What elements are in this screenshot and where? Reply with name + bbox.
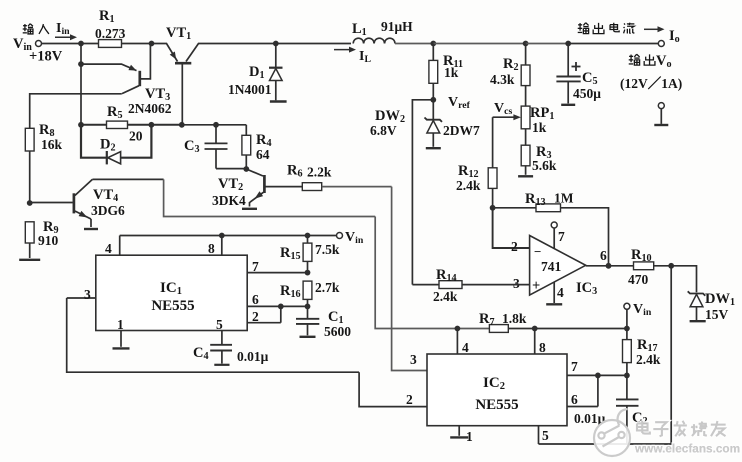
label Vref bbox=[448, 95, 471, 111]
pin 3 of IC2 bbox=[410, 352, 417, 367]
resistor R1 bbox=[95, 8, 126, 47]
wire (VT4 collector) bbox=[92, 178, 163, 180]
node N (summing) bbox=[490, 205, 496, 211]
resistor R7 bbox=[479, 311, 527, 332]
wire bbox=[206, 43, 276, 45]
node S (R15/R16) bbox=[305, 270, 311, 276]
svg-text:4.3k: 4.3k bbox=[490, 72, 515, 87]
label Vcs bbox=[494, 101, 512, 117]
inductor L1 bbox=[334, 19, 413, 65]
wire (supply rail to R7) bbox=[375, 217, 489, 329]
pin 2 of IC2 bbox=[406, 392, 413, 407]
capacitor C2 bbox=[574, 375, 648, 444]
svg-text:0.01μ: 0.01μ bbox=[237, 349, 269, 364]
node E (R2 tap) bbox=[523, 41, 529, 47]
pin 7 of IC3 with terminal bbox=[551, 222, 565, 249]
wire (input rail down) bbox=[80, 44, 82, 125]
svg-text:2: 2 bbox=[406, 392, 413, 407]
svg-text:15V: 15V bbox=[705, 307, 729, 322]
node J (D2 right) bbox=[149, 122, 155, 128]
wire (Vcs down) bbox=[492, 117, 494, 168]
wire bbox=[122, 43, 152, 45]
svg-text:7: 7 bbox=[571, 359, 578, 374]
svg-text:7: 7 bbox=[252, 259, 259, 274]
svg-text:4: 4 bbox=[462, 340, 469, 355]
svg-text:91μH: 91μH bbox=[381, 19, 413, 34]
resistor R13 bbox=[525, 191, 574, 212]
pin 1 of IC1 with ground bbox=[113, 317, 130, 348]
node Z (R17 bottom) bbox=[624, 373, 630, 379]
node Q (pin8 tap) bbox=[219, 233, 225, 239]
watermark text elecfans bbox=[634, 421, 740, 456]
diode D1 1N4001 bbox=[228, 44, 287, 102]
node Vin terminal (IC1 rail) bbox=[337, 230, 364, 246]
resistor R6 bbox=[287, 163, 332, 191]
svg-text:2.4k: 2.4k bbox=[433, 289, 458, 304]
svg-text:5.6k: 5.6k bbox=[532, 158, 557, 173]
pin 8 of IC1 bbox=[208, 236, 222, 257]
transistor VT2 bbox=[212, 169, 302, 209]
svg-text:6: 6 bbox=[252, 292, 259, 307]
svg-text:64: 64 bbox=[256, 147, 270, 162]
node B (R1 right) bbox=[149, 41, 155, 47]
wire (rail to R4) bbox=[182, 124, 247, 126]
svg-text:3DK4: 3DK4 bbox=[212, 193, 246, 208]
node Vin input terminal bbox=[36, 41, 42, 47]
svg-text:www.elecfans.com: www.elecfans.com bbox=[634, 442, 740, 456]
svg-text:16k: 16k bbox=[41, 137, 63, 152]
svg-text:6.8V: 6.8V bbox=[370, 123, 397, 138]
node I (R5 rail left) bbox=[78, 122, 84, 128]
wire bbox=[626, 309, 628, 328]
pin 5 of IC1 bbox=[216, 317, 223, 344]
zener diode DW2 2DW7 bbox=[370, 100, 480, 148]
IC IC2 NE555 bbox=[427, 354, 567, 426]
watermark logo elecfans bbox=[594, 409, 630, 456]
wire (VT1 base) bbox=[181, 64, 183, 125]
svg-text:741: 741 bbox=[541, 259, 562, 274]
svg-text:5600: 5600 bbox=[324, 324, 351, 339]
pin 5 of IC2 bbox=[539, 426, 550, 444]
op-amp U1 741 IC3 bbox=[511, 236, 607, 298]
svg-text:450μ: 450μ bbox=[573, 86, 601, 101]
capacitor C3 bbox=[184, 125, 228, 169]
wire bbox=[322, 186, 392, 188]
wire (R14 to pin3) bbox=[462, 284, 530, 286]
node D (R11 tap) bbox=[430, 41, 436, 47]
wire (IC1 supply rail) bbox=[120, 235, 337, 237]
svg-text:+: + bbox=[532, 278, 540, 294]
diode D2 bbox=[81, 125, 151, 165]
svg-text:2.2k: 2.2k bbox=[307, 165, 332, 180]
label output current Io bbox=[578, 23, 680, 45]
wire bbox=[433, 43, 525, 45]
pin 7 of IC2 bbox=[567, 359, 627, 375]
wire (VT4 to IC2 supply rail) bbox=[164, 179, 376, 216]
svg-text:20: 20 bbox=[129, 129, 143, 144]
wire bbox=[81, 43, 99, 45]
pin 6 of IC1 bbox=[247, 292, 307, 307]
pin 2 of IC1 bbox=[247, 306, 281, 324]
wire bbox=[216, 168, 246, 170]
wire bbox=[654, 265, 672, 267]
node output terminal Io bbox=[658, 41, 664, 47]
wire bbox=[128, 124, 182, 126]
node A (input rail) bbox=[78, 41, 84, 47]
svg-text:1: 1 bbox=[117, 317, 124, 332]
svg-text:2.4k: 2.4k bbox=[636, 352, 661, 367]
wire (VT3 collector to R8) bbox=[30, 94, 122, 129]
wire bbox=[568, 43, 658, 45]
pin 4 of IC1 bbox=[105, 236, 120, 257]
svg-text:0.273: 0.273 bbox=[95, 26, 126, 41]
svg-text:2.7k: 2.7k bbox=[315, 280, 340, 295]
resistor R15 bbox=[280, 236, 340, 273]
svg-text:470: 470 bbox=[628, 272, 649, 287]
wire bbox=[42, 43, 82, 45]
svg-text:910: 910 bbox=[38, 233, 59, 248]
svg-text:1.8k: 1.8k bbox=[502, 311, 527, 326]
wire (IC1 pin3 run) bbox=[67, 298, 359, 372]
pin 4 of IC3 with ground bbox=[546, 282, 564, 304]
wire (to IC2 pin2) bbox=[359, 372, 427, 406]
wire bbox=[412, 284, 439, 286]
svg-text:6: 6 bbox=[600, 248, 607, 263]
node C (D1 tap) bbox=[273, 41, 279, 47]
pin 1 of IC2 with ground bbox=[450, 426, 473, 444]
svg-text:4: 4 bbox=[557, 285, 564, 300]
wire (feedback to bottom rail) bbox=[539, 266, 672, 444]
node R (R15 top) bbox=[305, 233, 311, 239]
svg-text:4: 4 bbox=[105, 241, 112, 256]
resistor R5 bbox=[107, 104, 143, 144]
wire bbox=[395, 43, 433, 45]
svg-text:7.5k: 7.5k bbox=[315, 242, 340, 257]
wire bbox=[526, 43, 569, 45]
node K (VT1 base) bbox=[179, 122, 185, 128]
resistor R4 bbox=[242, 125, 272, 169]
wire (to DW1) bbox=[671, 266, 696, 293]
node O (opamp output) bbox=[606, 263, 612, 269]
resistor R8 bbox=[25, 122, 62, 152]
svg-text:3: 3 bbox=[513, 276, 520, 291]
svg-text:3DG6: 3DG6 bbox=[91, 203, 125, 218]
node Vin terminal (right) bbox=[624, 302, 652, 318]
node P (R10 right) bbox=[668, 263, 674, 269]
transistor VT4 bbox=[30, 179, 125, 229]
wire (R6 to IC2 pin3) bbox=[392, 187, 427, 371]
svg-text:8: 8 bbox=[208, 241, 215, 256]
svg-text:2.4k: 2.4k bbox=[456, 178, 481, 193]
svg-text:1k: 1k bbox=[444, 65, 459, 80]
resistor R14 bbox=[433, 267, 462, 304]
IC IC1 NE555 bbox=[96, 255, 247, 330]
ground (below R9) bbox=[19, 243, 40, 260]
svg-text:−: − bbox=[534, 244, 541, 259]
node Y (pin6 tie) bbox=[595, 373, 601, 379]
zener diode DW1 15V bbox=[688, 291, 735, 322]
resistor R12 bbox=[456, 163, 497, 208]
resistor R2 bbox=[490, 44, 530, 88]
node T (R16 bottom) bbox=[305, 304, 311, 310]
wire (Vref to R14) bbox=[412, 100, 433, 285]
node X (Vin/R17) bbox=[624, 326, 630, 332]
svg-text:2: 2 bbox=[511, 239, 518, 254]
svg-text:NE555: NE555 bbox=[151, 298, 194, 314]
node V (pin4 tap) bbox=[455, 326, 461, 332]
transistor VT1 bbox=[152, 25, 207, 63]
wire bbox=[493, 207, 536, 209]
node G (VT3 emitter tap) bbox=[78, 61, 84, 67]
node M (VT2 collector) bbox=[243, 166, 249, 172]
label input Vin +18V bbox=[13, 21, 77, 65]
svg-text:1: 1 bbox=[466, 429, 473, 444]
svg-text:2N4062: 2N4062 bbox=[128, 101, 172, 116]
wire (node N to pin2) bbox=[493, 208, 530, 248]
wire bbox=[276, 43, 351, 45]
svg-text:1N4001: 1N4001 bbox=[228, 82, 272, 97]
svg-text:3: 3 bbox=[84, 287, 91, 302]
wire (opamp output) bbox=[586, 265, 609, 267]
resistor R17 bbox=[623, 329, 661, 376]
resistor R16 bbox=[280, 280, 340, 306]
node H (VT4 base) bbox=[27, 200, 33, 206]
pin 7 of IC1 bbox=[247, 259, 307, 274]
wire (R7 rail right) bbox=[508, 328, 627, 330]
svg-text:6: 6 bbox=[571, 392, 578, 407]
node F (C5 tap) bbox=[565, 41, 571, 47]
pin 3 of IC1 bbox=[67, 287, 96, 302]
svg-text:1k: 1k bbox=[532, 120, 547, 135]
svg-text:3: 3 bbox=[410, 352, 417, 367]
capacitor C1 bbox=[296, 306, 351, 339]
pin 8 of IC2 bbox=[535, 329, 546, 356]
capacitor C4 bbox=[193, 345, 269, 365]
svg-text:5: 5 bbox=[542, 428, 549, 443]
pin 4 of IC2 bbox=[457, 329, 469, 356]
transistor VT3 bbox=[81, 44, 172, 117]
resistor R3 bbox=[518, 129, 557, 177]
pin 6 of IC2 bbox=[567, 375, 598, 407]
node L (C3 tap) bbox=[213, 122, 219, 128]
label output Vo 12V/1A bbox=[620, 53, 682, 91]
svg-text:(12V／1A): (12V／1A) bbox=[620, 76, 682, 91]
svg-text:+18V: +18V bbox=[29, 49, 63, 65]
svg-text:2: 2 bbox=[252, 309, 259, 324]
wire bbox=[609, 265, 634, 267]
potentiometer RP1 bbox=[493, 86, 555, 135]
node W (pin8 tap) bbox=[532, 326, 538, 332]
resistor R9 bbox=[25, 219, 58, 248]
resistor R11 bbox=[429, 44, 463, 100]
node Vref bbox=[430, 97, 436, 103]
wire bbox=[81, 124, 107, 126]
wire (R13 to output node) bbox=[561, 208, 609, 266]
wire bbox=[29, 151, 31, 203]
svg-text:7: 7 bbox=[558, 229, 565, 244]
svg-text:2DW7: 2DW7 bbox=[443, 123, 480, 138]
svg-text:5: 5 bbox=[216, 317, 223, 332]
node U (pin2 tie) bbox=[278, 304, 284, 310]
node output ground terminal bbox=[654, 103, 668, 125]
svg-text:NE555: NE555 bbox=[475, 397, 518, 413]
svg-text:1M: 1M bbox=[554, 191, 574, 206]
resistor R10 bbox=[628, 247, 654, 287]
svg-text:8: 8 bbox=[539, 340, 546, 355]
capacitor C5 electrolytic bbox=[556, 44, 601, 105]
